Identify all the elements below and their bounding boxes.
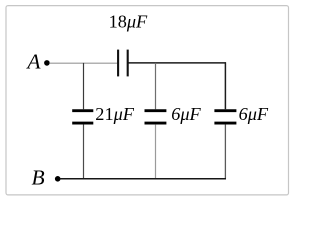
capacitor C4 6uF (right vertical branch) (214, 109, 236, 112)
svg-text:B: B (32, 165, 45, 189)
svg-text:6μF: 6μF (239, 104, 269, 124)
wire: middle branch upper (junction to C3) (155, 63, 157, 109)
node A terminal dot (44, 60, 50, 66)
svg-text:6μF: 6μF (171, 104, 201, 124)
border frame (6, 6, 289, 195)
wire: C1 right plate to top-right corner (128, 62, 226, 64)
wire: A to capacitor C1 left plate (49, 62, 117, 64)
wire: right branch upper (corner to C4) (224, 62, 226, 109)
capacitor C3 6uF (middle vertical branch) (145, 109, 167, 112)
svg-text:A: A (25, 49, 41, 73)
wire: bottom (B to right branch) (60, 178, 226, 180)
wire: left branch upper (junction to C2) (83, 63, 85, 109)
capacitor C2 21uF (left vertical branch) (72, 109, 93, 112)
svg-text:21μF: 21μF (95, 104, 134, 124)
capacitor C1 18uF (top, horizontal orientation) (117, 50, 119, 77)
wire: right branch lower (C4 to bottom wire) (224, 124, 226, 178)
node B terminal dot (55, 176, 61, 182)
wire: left branch lower (C2 to bottom wire) (83, 124, 85, 178)
svg-text:18μF: 18μF (109, 12, 148, 32)
wire: middle branch lower (C3 to bottom wire) (155, 124, 157, 178)
